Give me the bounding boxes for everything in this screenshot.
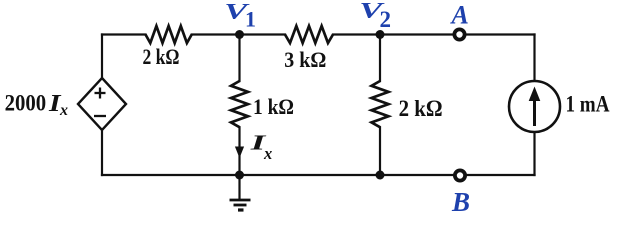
- svg-text:2 kΩ: 2 kΩ: [143, 44, 180, 69]
- svg-text:x: x: [59, 102, 68, 119]
- svg-text:2 kΩ: 2 kΩ: [399, 96, 443, 121]
- svg-text:1: 1: [245, 7, 256, 32]
- svg-text:2000: 2000: [5, 91, 47, 116]
- svg-text:2: 2: [380, 7, 392, 32]
- svg-text:B: B: [451, 187, 470, 217]
- svg-text:x: x: [263, 144, 272, 163]
- svg-text:3 kΩ: 3 kΩ: [284, 47, 326, 72]
- svg-text:A: A: [450, 0, 469, 29]
- svg-text:1 kΩ: 1 kΩ: [253, 94, 294, 119]
- svg-text:1 mA: 1 mA: [566, 92, 610, 117]
